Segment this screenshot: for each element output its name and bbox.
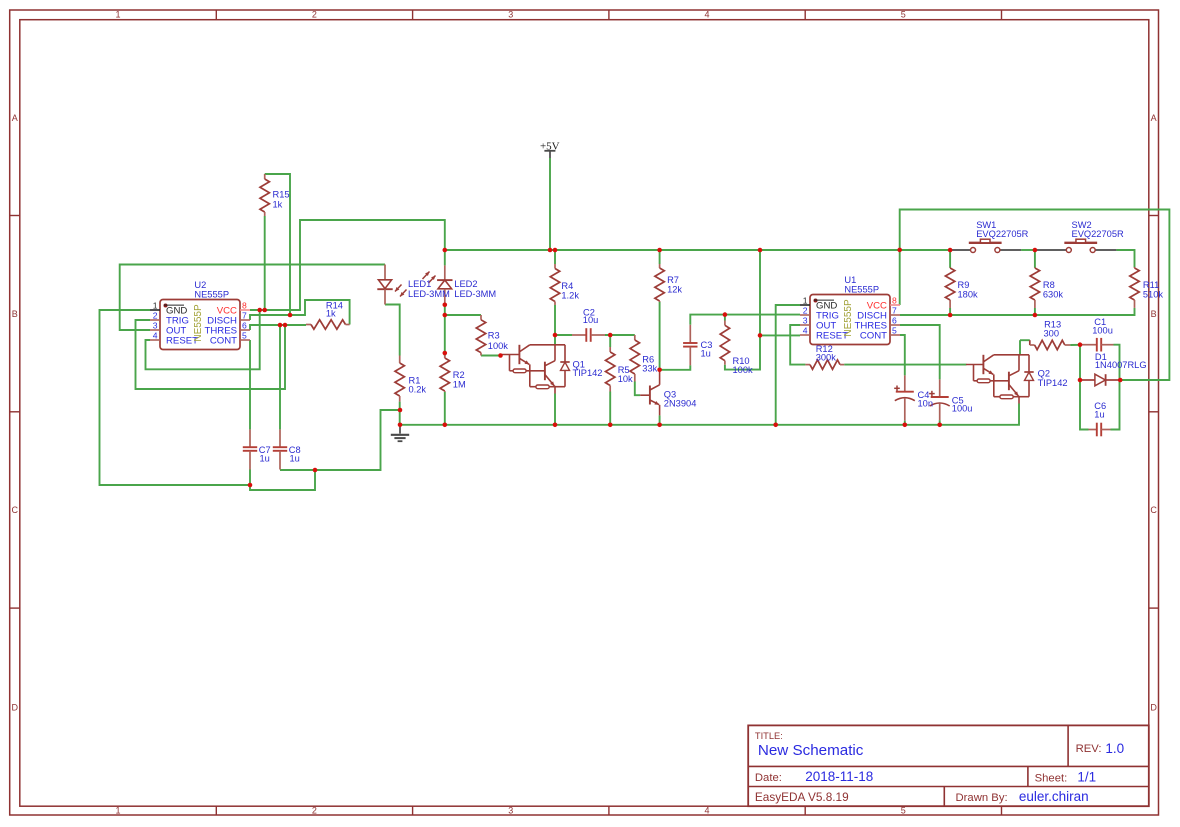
- svg-text:R3: R3: [488, 331, 500, 341]
- svg-text:12k: 12k: [667, 284, 682, 294]
- svg-text:2: 2: [312, 9, 317, 19]
- svg-text:euler.chiran: euler.chiran: [1019, 789, 1089, 804]
- svg-text:510k: 510k: [1143, 290, 1164, 300]
- svg-text:TIP142: TIP142: [1038, 378, 1068, 388]
- svg-text:R7: R7: [667, 275, 679, 285]
- svg-text:630k: 630k: [1043, 290, 1064, 300]
- svg-text:2: 2: [312, 806, 317, 816]
- svg-text:1.2k: 1.2k: [561, 290, 579, 300]
- svg-text:3: 3: [153, 321, 158, 331]
- svg-text:1u: 1u: [290, 454, 300, 464]
- svg-text:300k: 300k: [816, 353, 837, 363]
- svg-text:10k: 10k: [618, 374, 633, 384]
- svg-text:6: 6: [892, 316, 897, 326]
- svg-text:LED-3MM: LED-3MM: [408, 289, 450, 299]
- svg-text:8: 8: [892, 296, 897, 306]
- svg-text:R2: R2: [453, 370, 465, 380]
- svg-text:B: B: [1151, 309, 1157, 319]
- svg-text:EVQ22705R: EVQ22705R: [976, 229, 1028, 239]
- svg-text:REV:: REV:: [1076, 743, 1102, 755]
- svg-text:Date:: Date:: [755, 772, 782, 784]
- svg-text:5: 5: [242, 331, 247, 341]
- svg-text:A: A: [1151, 113, 1157, 123]
- svg-text:33k: 33k: [642, 364, 657, 374]
- svg-text:7: 7: [892, 306, 897, 316]
- svg-text:5: 5: [901, 9, 906, 19]
- svg-text:R8: R8: [1043, 280, 1055, 290]
- svg-text:Sheet:: Sheet:: [1035, 773, 1068, 785]
- svg-text:1: 1: [803, 296, 808, 306]
- svg-text:0.2k: 0.2k: [409, 384, 427, 394]
- svg-text:EVQ22705R: EVQ22705R: [1072, 229, 1124, 239]
- svg-text:10u: 10u: [583, 315, 599, 325]
- svg-text:B: B: [12, 309, 18, 319]
- svg-text:LED2: LED2: [454, 279, 477, 289]
- svg-text:1M: 1M: [453, 380, 466, 390]
- svg-text:R15: R15: [273, 190, 290, 200]
- svg-text:1u: 1u: [260, 454, 270, 464]
- svg-text:New Schematic: New Schematic: [758, 742, 864, 759]
- svg-text:EasyEDA V5.8.19: EasyEDA V5.8.19: [755, 790, 849, 804]
- svg-text:10n: 10n: [918, 399, 934, 409]
- svg-text:U2: U2: [194, 280, 206, 290]
- svg-text:1: 1: [115, 806, 120, 816]
- svg-text:2N3904: 2N3904: [664, 398, 697, 408]
- svg-text:1N4007RLG: 1N4007RLG: [1095, 360, 1147, 370]
- svg-text:1u: 1u: [701, 349, 711, 359]
- svg-text:1.0: 1.0: [1105, 741, 1124, 756]
- svg-text:4: 4: [704, 9, 709, 19]
- svg-text:LED1: LED1: [408, 279, 431, 289]
- svg-text:TITLE:: TITLE:: [755, 731, 783, 741]
- svg-text:1k: 1k: [273, 200, 283, 210]
- svg-text:180k: 180k: [958, 290, 979, 300]
- svg-text:2: 2: [803, 306, 808, 316]
- svg-text:2: 2: [153, 311, 158, 321]
- svg-text:7: 7: [242, 311, 247, 321]
- svg-text:U1: U1: [844, 275, 856, 285]
- svg-text:2018-11-18: 2018-11-18: [805, 769, 873, 784]
- svg-text:1: 1: [115, 9, 120, 19]
- svg-text:1u: 1u: [1094, 410, 1104, 420]
- svg-text:3: 3: [803, 316, 808, 326]
- svg-text:1: 1: [153, 301, 158, 311]
- svg-text:LED-3MM: LED-3MM: [454, 289, 496, 299]
- svg-text:C: C: [1150, 505, 1157, 515]
- svg-text:3: 3: [508, 9, 513, 19]
- svg-text:Drawn By:: Drawn By:: [956, 792, 1008, 804]
- svg-text:300: 300: [1044, 329, 1060, 339]
- svg-text:8: 8: [242, 301, 247, 311]
- svg-text:100u: 100u: [1092, 326, 1113, 336]
- svg-text:Q2: Q2: [1038, 368, 1050, 378]
- svg-text:NE555P: NE555P: [844, 285, 879, 295]
- svg-text:4: 4: [803, 326, 808, 336]
- svg-text:R11: R11: [1143, 280, 1159, 290]
- svg-text:R9: R9: [958, 280, 970, 290]
- svg-text:100u: 100u: [952, 404, 973, 414]
- svg-text:D: D: [11, 702, 18, 712]
- svg-text:6: 6: [242, 321, 247, 331]
- svg-text:4: 4: [153, 331, 158, 341]
- svg-text:A: A: [12, 113, 18, 123]
- svg-text:C: C: [11, 505, 18, 515]
- svg-text:TIP142: TIP142: [573, 368, 603, 378]
- svg-text:CONT: CONT: [210, 335, 237, 346]
- svg-text:100k: 100k: [733, 365, 754, 375]
- svg-text:1/1: 1/1: [1077, 770, 1096, 785]
- svg-text:5: 5: [892, 326, 897, 336]
- svg-text:3: 3: [508, 806, 513, 816]
- svg-text:1k: 1k: [326, 308, 336, 318]
- svg-text:100k: 100k: [488, 341, 509, 351]
- svg-text:D: D: [1150, 702, 1157, 712]
- svg-text:NE555P: NE555P: [194, 290, 229, 300]
- svg-text:NE555P: NE555P: [193, 304, 204, 342]
- svg-text:4: 4: [704, 806, 709, 816]
- svg-text:NE555P: NE555P: [843, 299, 854, 337]
- svg-text:CONT: CONT: [860, 330, 887, 341]
